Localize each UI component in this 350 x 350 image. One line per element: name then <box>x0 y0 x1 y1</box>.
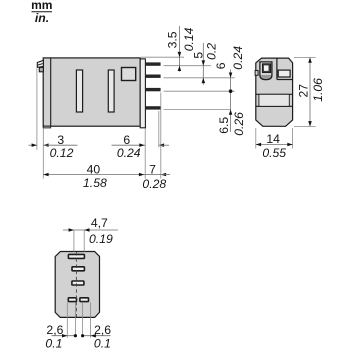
svg-text:14: 14 <box>266 132 280 146</box>
svg-text:5: 5 <box>191 52 205 59</box>
svg-text:3.5: 3.5 <box>165 31 179 48</box>
svg-text:1.06: 1.06 <box>311 78 325 102</box>
relay body (end view octagon) <box>255 58 293 126</box>
dimension 27 / 1.06 <box>297 58 326 127</box>
test button body <box>260 62 272 80</box>
pin 3 <box>145 88 160 91</box>
dimension 2,6 / 0.1 left <box>45 323 77 350</box>
svg-text:2,6: 2,6 <box>94 323 111 337</box>
relay body (bottom view octagon) <box>55 252 99 318</box>
bottom extension line: clip left <box>36 68 38 150</box>
dimension 14 / 0.55 <box>256 132 293 160</box>
svg-text:0.12: 0.12 <box>50 146 74 160</box>
svg-text:6: 6 <box>214 62 228 69</box>
latch base line <box>277 79 293 81</box>
extension line pin3 <box>164 90 235 92</box>
svg-text:0.55: 0.55 <box>262 146 286 160</box>
dimension 3 / 0.12 <box>29 133 78 160</box>
dimension 7 / 0.28 <box>142 163 170 191</box>
dimension 6 / 0.24 (vertical) <box>214 46 245 132</box>
bottom extension line: pin tip long <box>160 93 162 179</box>
extension line pin4 <box>164 109 231 111</box>
dimension 5 / 0.2 <box>191 43 218 85</box>
svg-text:7: 7 <box>149 163 156 177</box>
right socket band <box>140 59 145 128</box>
dimension 4,7 / 0.19 <box>63 216 118 246</box>
bottom extension line: band right <box>144 129 146 179</box>
svg-text:0.14: 0.14 <box>182 27 196 51</box>
bottom extension line: pin tip short <box>158 111 160 148</box>
button shadow <box>261 75 272 79</box>
mounting clip upper tab <box>37 60 43 67</box>
latch window <box>278 70 290 77</box>
svg-text:0.2: 0.2 <box>205 43 219 60</box>
pin slot top 1 <box>68 254 84 258</box>
pin 2 <box>145 75 160 78</box>
pin slot bottom right <box>80 298 89 302</box>
legend mm/in <box>31 0 52 25</box>
svg-text:0.28: 0.28 <box>142 177 166 191</box>
svg-text:0.24: 0.24 <box>117 146 141 160</box>
svg-text:6.5: 6.5 <box>217 117 231 134</box>
pin slot top 2 <box>72 267 84 271</box>
extension line end-view top <box>294 57 316 59</box>
extension lines bottom dims <box>66 302 68 338</box>
extension line body top <box>141 56 184 58</box>
svg-text:1.58: 1.58 <box>83 176 107 190</box>
svg-text:27: 27 <box>297 84 311 98</box>
mounting clip lower tab <box>39 67 43 71</box>
slot 1 (side view) <box>76 70 82 112</box>
svg-text:4,7: 4,7 <box>91 216 108 230</box>
dimension 6.5 / 0.26 <box>217 112 246 136</box>
svg-text:0.1: 0.1 <box>94 337 111 350</box>
button square outer <box>262 64 270 73</box>
svg-text:0.19: 0.19 <box>89 232 113 246</box>
dimension 2,6 / 0.1 right <box>81 323 111 350</box>
top divider line <box>276 58 278 79</box>
extension line pin1 <box>164 65 212 67</box>
svg-text:0.26: 0.26 <box>232 112 246 136</box>
svg-text:in.: in. <box>35 11 49 25</box>
extension line pin2 <box>164 77 235 79</box>
pin 4 <box>145 106 160 109</box>
svg-text:0.1: 0.1 <box>45 337 62 350</box>
svg-text:2,6: 2,6 <box>46 323 63 337</box>
left edge notch <box>255 71 258 76</box>
pin 1 <box>145 62 160 65</box>
pin slot bottom left <box>68 298 76 302</box>
relay body (side view) <box>43 58 140 128</box>
dimension 6 / 0.24 (bottom row) <box>112 133 170 160</box>
svg-text:0.24: 0.24 <box>231 46 245 70</box>
junction dot pin3 <box>229 89 233 93</box>
svg-text:40: 40 <box>87 163 101 177</box>
extension line end-view bottom <box>294 125 316 127</box>
pin slot top 3 <box>72 281 84 285</box>
extension lines 4,7 dim <box>73 230 75 252</box>
extension lines 14 dim <box>255 128 257 149</box>
bottom extension line: body left <box>42 129 44 179</box>
dimension 3.5 / 0.14 <box>165 26 196 72</box>
dimension 40 / 1.58 <box>43 163 145 191</box>
button square inner <box>264 65 269 71</box>
left strip foot <box>43 126 51 128</box>
marking square <box>122 68 136 81</box>
groove band top line <box>256 93 293 95</box>
center dashed line <box>75 252 77 317</box>
groove band bottom line <box>256 105 293 107</box>
groove band inner <box>259 94 289 106</box>
left strip divider <box>50 58 52 126</box>
slot 2 (side view) <box>108 70 114 112</box>
